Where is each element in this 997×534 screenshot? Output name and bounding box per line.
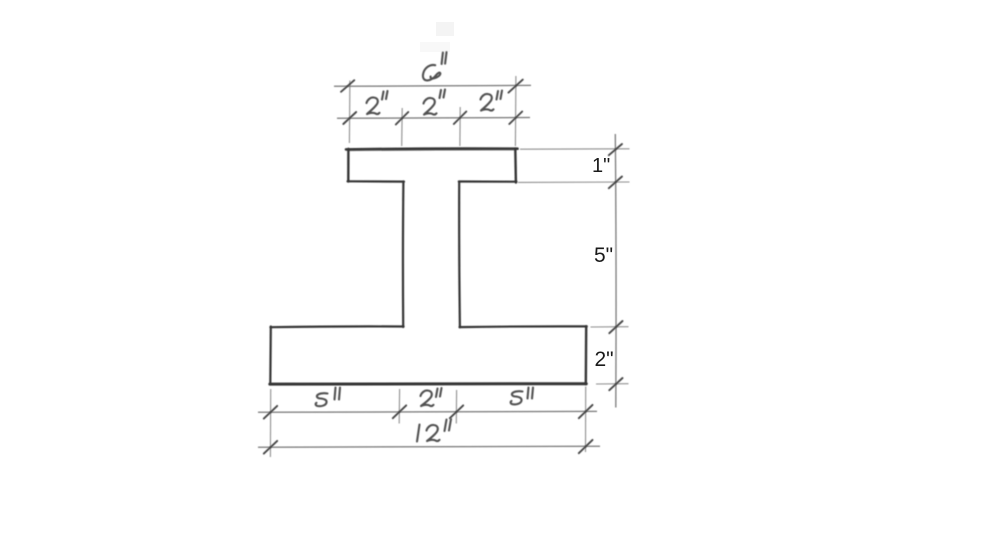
beam bottom flange left edge	[269, 327, 272, 385]
faint scan smudge top center	[436, 22, 454, 36]
tick 12" left	[264, 441, 277, 454]
extension line above flange x=460	[459, 107, 461, 146]
svg-text:2": 2"	[595, 348, 614, 371]
beam top flange top edge	[346, 147, 518, 150]
tick 2" line x=460	[454, 112, 467, 125]
right extension line y=182	[518, 181, 630, 183]
right vertical dimension line x=615.5	[614, 134, 617, 408]
beam bottom flange right edge	[585, 326, 588, 384]
bottom extension line x=585.6	[585, 387, 587, 453]
tick bottom dim x=270.6	[264, 406, 277, 419]
tick 6" right	[509, 80, 523, 93]
tick 2" line x=349	[343, 112, 356, 124]
beam top flange underside right	[459, 180, 517, 182]
beam web left edge	[402, 181, 405, 327]
handwritten label 2" second	[424, 90, 446, 115]
tick 6" left	[341, 80, 354, 92]
I-beam cross-section outline	[270, 148, 587, 384]
bottom extension line x=456.4	[455, 390, 457, 424]
top dimension line 6" y=86	[334, 84, 531, 87]
handwritten dimension labels	[316, 52, 533, 441]
tick right dim y=384	[609, 378, 622, 390]
beam web right edge	[458, 182, 461, 328]
handwritten label 5" bottom right	[511, 388, 533, 405]
bottom extension line x=399.4	[398, 389, 400, 424]
beam top flange underside left	[348, 180, 405, 183]
handwritten label 2" bottom middle	[421, 388, 442, 406]
beam bottom flange top edge left	[270, 325, 403, 328]
tick bottom dim x=456.5	[450, 405, 463, 418]
beam top flange left edge	[347, 149, 350, 182]
handwritten label 2" first	[367, 91, 388, 114]
handwritten label 6" top	[423, 52, 447, 80]
bottom extension line x=270.6	[269, 389, 271, 457]
beam bottom flange bottom edge	[270, 382, 587, 386]
handwritten label 2" third	[481, 91, 503, 111]
tick right dim y=327	[609, 321, 622, 333]
tick bottom dim x=585.6 right	[579, 405, 593, 418]
handwritten label 5" bottom left	[316, 388, 340, 407]
beam top flange right edge	[514, 148, 517, 182]
handwritten label 12" bottom	[417, 419, 451, 442]
bottom dimension line 5"+2"+5" y=412	[258, 410, 597, 413]
right extension line y=384	[596, 383, 629, 385]
svg-text:5": 5"	[594, 244, 613, 267]
tick marks	[264, 80, 623, 454]
tick 2" line x=402	[396, 112, 409, 125]
right extension line y=149	[520, 148, 630, 150]
tick right dim y=182	[609, 177, 622, 189]
bottom dimension line 12" y=447	[258, 446, 600, 447]
right extension line y=327	[591, 326, 629, 328]
extension line above flange right x=515.6	[514, 76, 517, 146]
tick 12" right	[579, 440, 593, 453]
tick bottom dim x=399.4	[393, 405, 406, 418]
tick right dim y=149	[609, 144, 622, 155]
svg-text:1": 1"	[592, 155, 610, 177]
extension line above flange x=402	[401, 108, 404, 146]
second dimension line 2"+2"+2" y=118	[337, 117, 530, 120]
beam bottom flange top edge right	[460, 325, 587, 328]
tick 2" line x=515.8	[509, 112, 522, 125]
extension line above flange left x=350	[348, 81, 351, 144]
